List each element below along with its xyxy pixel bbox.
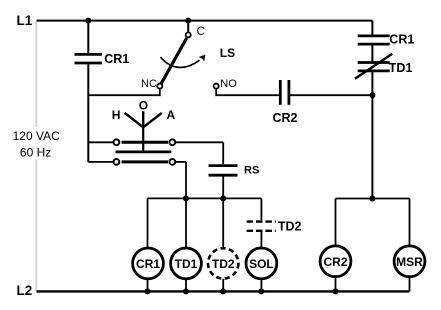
wire CR1 coil to L2	[147, 279, 149, 292]
switch blade LS	[161, 38, 186, 83]
wire TD1 down	[371, 72, 373, 198]
svg-text:120 VAC: 120 VAC	[13, 129, 60, 143]
svg-text:CR1: CR1	[389, 33, 414, 47]
node SOL coil on L2	[258, 288, 264, 294]
wire RS down to bus	[222, 177, 224, 248]
rail L1	[37, 20, 373, 22]
svg-text:A: A	[167, 108, 176, 122]
svg-text:CR1: CR1	[104, 52, 129, 66]
wire bus to CR1 coil	[147, 198, 149, 247]
wire SOL coil to L2	[260, 279, 262, 292]
svg-text:TD1: TD1	[175, 257, 198, 271]
node TD1 coil on L2	[183, 288, 189, 294]
svg-text:60 Hz: 60 Hz	[20, 145, 51, 159]
wire bus to TD1 coil	[185, 198, 187, 247]
arrowhead	[199, 55, 206, 62]
terminal NO	[214, 84, 219, 89]
wire TD2 coil to L2	[222, 279, 224, 292]
label 120 VAC 60 Hz	[11, 127, 62, 159]
svg-text:L2: L2	[17, 283, 33, 298]
node CR1 coil on L2	[145, 288, 151, 294]
coil SOL	[246, 248, 277, 279]
svg-text:TD1: TD1	[389, 61, 413, 75]
svg-text:H: H	[112, 108, 121, 122]
wire row1 down to RS	[222, 142, 224, 164]
wire to MSR coil	[409, 199, 411, 247]
selector contact row 1	[88, 139, 223, 145]
wire TD2 contact to SOL coil	[260, 232, 262, 247]
svg-text:TD2: TD2	[212, 257, 235, 271]
actuation arc	[161, 57, 200, 67]
node CR2 coil on L2	[333, 288, 339, 294]
header wire to CR2/MSR coils	[336, 198, 410, 200]
wire bus to TD2 contact	[260, 198, 262, 220]
svg-text:SOL: SOL	[249, 257, 274, 271]
selector contact row 2	[88, 159, 186, 165]
contact TD2 (dashed)	[247, 222, 276, 231]
contact CR2	[280, 80, 289, 105]
node TD1	[183, 195, 189, 201]
svg-text:RS: RS	[244, 164, 259, 176]
selector bar	[116, 150, 172, 153]
wire NC to left branch	[88, 89, 160, 95]
svg-text:CR1: CR1	[136, 257, 160, 271]
wire TD1 coil to L2	[185, 279, 187, 292]
wire row2 down to bus	[185, 162, 187, 199]
selector lever	[125, 111, 162, 152]
right branch from L1	[371, 21, 373, 35]
svg-text:NO: NO	[220, 78, 237, 90]
coil CR1	[133, 248, 164, 279]
node TD2	[220, 195, 226, 201]
terminal C	[186, 32, 191, 37]
svg-text:CR2: CR2	[273, 111, 298, 125]
bus above coils	[148, 197, 262, 199]
svg-text:MSR: MSR	[396, 255, 423, 269]
contact CR1 (right)	[358, 36, 390, 44]
wire to CR2 coil	[335, 199, 337, 247]
wire to C terminal	[187, 21, 189, 32]
svg-text:O: O	[139, 99, 148, 113]
coil TD1	[171, 248, 202, 279]
contact RS	[209, 166, 238, 176]
wire CR2 coil to L2	[335, 277, 337, 292]
node TD2 coil on L2	[220, 288, 226, 294]
svg-text:CR2: CR2	[323, 255, 347, 269]
wire CR1 branch lower	[87, 64, 89, 162]
node header join	[369, 196, 375, 202]
wire MSR coil to L2	[409, 277, 411, 292]
svg-text:C: C	[197, 26, 205, 38]
coil CR2	[320, 246, 351, 277]
node NO wire joins right branch	[369, 92, 375, 98]
svg-text:L1: L1	[17, 13, 33, 28]
rail L2	[37, 290, 410, 292]
svg-text:TD2: TD2	[278, 220, 302, 234]
source line (gray) between L1 and L2	[35, 21, 37, 291]
wire between contacts	[371, 45, 373, 61]
coil MSR	[394, 246, 425, 277]
coil TD2 (dashed)	[208, 248, 238, 278]
wire CR1 branch upper	[87, 21, 89, 54]
terminal NC	[157, 84, 162, 89]
node on L1 at CR1 branch	[85, 18, 91, 24]
contact CR1 (left)	[75, 54, 103, 63]
svg-text:LS: LS	[220, 46, 235, 60]
wire NO down and right	[216, 89, 280, 95]
contact TD1 (timed, with slash)	[355, 54, 392, 79]
svg-text:NC: NC	[141, 78, 157, 90]
node on L1 at limit switch	[185, 18, 191, 24]
wire CR2 to right branch	[289, 94, 373, 96]
